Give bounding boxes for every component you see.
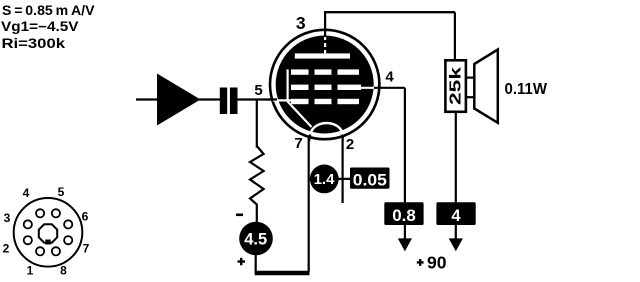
- anode top wire across: [324, 11, 455, 13]
- grid g1 row: [291, 99, 309, 104]
- svg-text:1.4: 1.4: [314, 171, 336, 188]
- svg-text:7: 7: [294, 135, 302, 152]
- input wire: [136, 98, 158, 100]
- wire capacitor to grid pin 5: [238, 98, 279, 100]
- wire below 0.8: [404, 225, 406, 240]
- svg-text:4: 4: [385, 68, 394, 85]
- screen pin 4 wire: [374, 87, 405, 89]
- svg-text:0.8: 0.8: [392, 207, 416, 225]
- socket pin hole 6: [64, 220, 72, 228]
- svg-text:4.5: 4.5: [244, 231, 267, 249]
- svg-text:0.05: 0.05: [353, 171, 387, 189]
- svg-text:6: 6: [82, 210, 89, 224]
- wire cathode pin 7 vertical: [308, 134, 310, 272]
- svg-text:5: 5: [58, 185, 65, 199]
- tube inner disk: [276, 36, 374, 134]
- socket pin hole 5: [52, 209, 60, 217]
- svg-text:8: 8: [60, 264, 67, 278]
- wire pin5 through ring: [266, 98, 277, 100]
- svg-text:90: 90: [427, 253, 447, 273]
- svg-text:25k: 25k: [448, 67, 465, 105]
- grid g2 row: [291, 85, 309, 90]
- suppressor to cathode diagonal: [288, 102, 312, 128]
- socket pin hole 7: [64, 236, 72, 244]
- svg-text:Ri=300k: Ri=300k: [2, 36, 66, 51]
- wire junction down to grid resistor: [256, 100, 258, 148]
- speaker connection bars: [466, 76, 475, 78]
- socket pin hole 3: [24, 220, 32, 228]
- anode load resistor 25k: [445, 60, 466, 112]
- grid pin 5 internal lead: [273, 99, 292, 101]
- tube envelope: [270, 30, 379, 139]
- grid g3 row: [291, 69, 309, 74]
- screen pin 4 internal lead: [357, 87, 375, 89]
- battery plus sign: [238, 260, 246, 262]
- meter tick wire 1.4: [309, 178, 351, 180]
- wire below 4 box: [455, 225, 457, 240]
- svg-text:1: 1: [27, 264, 34, 278]
- socket pin hole 4: [36, 209, 44, 217]
- arrow to +90 left: [398, 238, 412, 251]
- tube socket base view: [3, 185, 90, 278]
- wire below 25k: [455, 112, 457, 203]
- voltage box 0.8: [384, 202, 423, 225]
- socket outline: [14, 198, 83, 267]
- anode plate bar: [295, 53, 350, 58]
- socket pin hole 8: [52, 247, 60, 255]
- svg-text:S = 0.85 m A/V: S = 0.85 m A/V: [2, 3, 94, 18]
- voltage box 0.05: [350, 168, 390, 189]
- input signal arrow: [157, 74, 201, 126]
- current meter 1.4: [310, 165, 339, 194]
- svg-text:4: 4: [23, 186, 30, 200]
- socket key notch: [45, 240, 50, 245]
- svg-text:4: 4: [451, 207, 461, 225]
- svg-text:3: 3: [4, 211, 11, 225]
- svg-text:0.11W: 0.11W: [505, 81, 548, 98]
- svg-text:2: 2: [3, 242, 10, 256]
- speaker cone: [474, 50, 498, 123]
- anode lead dashed inside: [324, 36, 326, 53]
- arrow to +90 right: [449, 238, 463, 251]
- battery minus sign: [236, 214, 243, 217]
- voltage box 4: [436, 202, 475, 225]
- wire battery to bottom: [255, 253, 257, 273]
- svg-text:Vg1=−4.5V: Vg1=−4.5V: [1, 19, 79, 34]
- socket pin hole 2: [24, 236, 32, 244]
- svg-text:3: 3: [296, 13, 306, 33]
- wire arrow to capacitor: [199, 98, 221, 100]
- battery 4.5: [239, 222, 273, 256]
- capacitor plate left: [220, 88, 227, 115]
- capacitor plate right: [230, 88, 238, 115]
- svg-text:2: 2: [346, 136, 354, 153]
- supply label +90: [417, 261, 424, 263]
- svg-text:5: 5: [254, 82, 262, 99]
- socket pin hole 1: [36, 247, 44, 255]
- anode wire up from tube: [324, 12, 326, 37]
- wire bottom horizontal thick: [255, 271, 310, 276]
- grid left connection line: [287, 69, 289, 102]
- socket center key: [39, 224, 57, 242]
- wire down to 25k: [454, 12, 456, 61]
- wire cathode pin 2 vertical: [342, 134, 344, 203]
- svg-text:7: 7: [83, 242, 90, 256]
- cathode dome: [311, 123, 343, 135]
- grid leak resistor zigzag: [250, 146, 264, 222]
- cathode legs: [309, 135, 310, 142]
